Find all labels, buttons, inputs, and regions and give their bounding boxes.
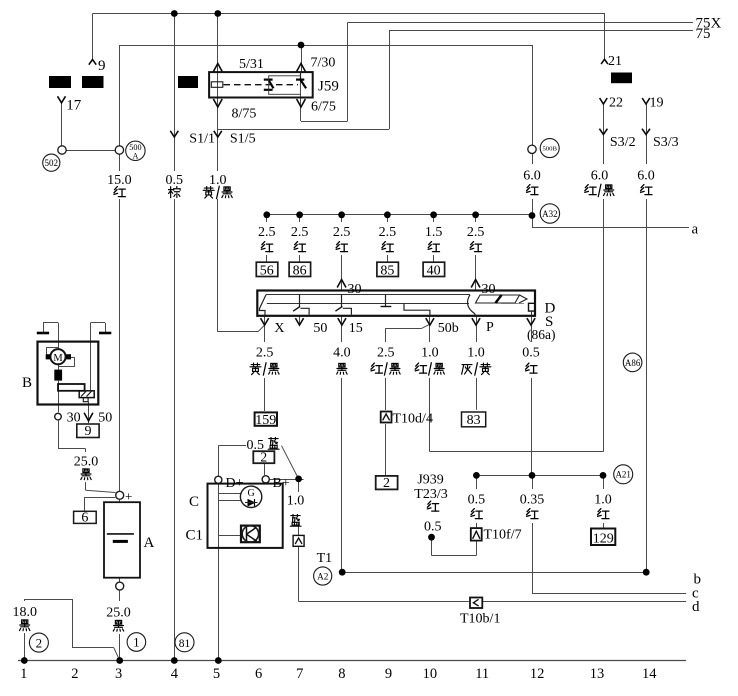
svg-text:A32: A32 — [542, 209, 558, 219]
svg-text:2.5: 2.5 — [333, 225, 351, 240]
svg-text:8: 8 — [338, 666, 345, 682]
svg-text:1.0: 1.0 — [594, 493, 612, 508]
svg-text:A: A — [144, 535, 155, 551]
svg-text:56: 56 — [260, 264, 274, 279]
svg-text:S1/5: S1/5 — [230, 132, 256, 147]
svg-text:D+: D+ — [226, 476, 244, 491]
svg-text:S3/2: S3/2 — [610, 135, 636, 150]
svg-text:30: 30 — [348, 282, 362, 297]
svg-text:21: 21 — [608, 54, 622, 69]
svg-text:d: d — [692, 599, 700, 615]
svg-text:+: + — [125, 489, 132, 504]
svg-text:9: 9 — [98, 58, 106, 74]
svg-text:P: P — [486, 320, 494, 335]
svg-text:1.5: 1.5 — [425, 225, 443, 240]
svg-text:12: 12 — [530, 666, 545, 682]
svg-text:159: 159 — [255, 413, 276, 428]
svg-text:22: 22 — [609, 96, 623, 111]
svg-text:1: 1 — [133, 635, 140, 650]
svg-text:30: 30 — [67, 411, 81, 426]
svg-text:A21: A21 — [615, 470, 631, 480]
svg-text:T10d/4: T10d/4 — [393, 411, 433, 426]
svg-text:2.5: 2.5 — [379, 225, 397, 240]
svg-text:0.5: 0.5 — [522, 346, 540, 361]
svg-text:11: 11 — [475, 666, 489, 682]
svg-text:0.35: 0.35 — [520, 493, 545, 508]
svg-text:B: B — [22, 375, 32, 391]
svg-text:5/31: 5/31 — [239, 57, 264, 72]
svg-text:J59: J59 — [318, 79, 339, 95]
svg-text:T10f/7: T10f/7 — [484, 528, 522, 543]
svg-text:19: 19 — [650, 96, 664, 111]
svg-text:50b: 50b — [438, 321, 459, 336]
svg-text:6.0: 6.0 — [637, 168, 655, 183]
svg-text:7/30: 7/30 — [311, 56, 336, 71]
svg-text:(86a): (86a) — [527, 327, 555, 342]
svg-text:3: 3 — [115, 666, 122, 682]
svg-text:81: 81 — [179, 638, 191, 650]
svg-text:40: 40 — [427, 264, 441, 279]
svg-text:A2: A2 — [317, 571, 329, 581]
svg-text:4.0: 4.0 — [333, 346, 351, 361]
svg-text:18.0: 18.0 — [12, 605, 37, 620]
svg-text:0.5: 0.5 — [468, 493, 486, 508]
svg-text:2.5: 2.5 — [467, 225, 485, 240]
svg-text:8/75: 8/75 — [232, 107, 257, 122]
svg-text:X: X — [274, 321, 284, 336]
svg-text:75: 75 — [696, 26, 711, 42]
svg-text:B+: B+ — [273, 476, 290, 491]
svg-text:5: 5 — [213, 666, 220, 682]
svg-text:2.5: 2.5 — [377, 346, 395, 361]
svg-text:50: 50 — [313, 321, 327, 336]
svg-text:83: 83 — [467, 413, 481, 428]
svg-text:A: A — [132, 151, 138, 160]
svg-text:1.0: 1.0 — [421, 346, 439, 361]
svg-text:2.5: 2.5 — [258, 225, 276, 240]
svg-text:6: 6 — [255, 666, 262, 682]
svg-text:85: 85 — [380, 264, 394, 279]
svg-text:86: 86 — [293, 264, 307, 279]
svg-text:a: a — [692, 222, 699, 238]
svg-text:6.0: 6.0 — [591, 168, 609, 183]
svg-text:50: 50 — [98, 411, 112, 426]
svg-text:S3/3: S3/3 — [653, 135, 679, 150]
svg-text:J939: J939 — [417, 473, 443, 488]
svg-text:15: 15 — [349, 321, 363, 336]
svg-text:M: M — [53, 353, 63, 364]
svg-text:10: 10 — [423, 666, 438, 682]
svg-text:9: 9 — [85, 424, 92, 439]
svg-text:T23/3: T23/3 — [414, 487, 447, 502]
svg-text:2: 2 — [383, 476, 390, 491]
svg-text:6.0: 6.0 — [523, 168, 541, 183]
svg-text:T1: T1 — [317, 551, 333, 566]
svg-text:S1/1: S1/1 — [189, 132, 215, 147]
svg-text:500B: 500B — [542, 146, 557, 153]
svg-text:15.0: 15.0 — [107, 173, 132, 188]
svg-text:2.5: 2.5 — [291, 225, 309, 240]
svg-text:0.5: 0.5 — [424, 520, 442, 535]
svg-text:1: 1 — [20, 666, 27, 682]
svg-text:G: G — [247, 488, 254, 499]
svg-text:129: 129 — [593, 532, 614, 547]
svg-text:14: 14 — [642, 666, 657, 682]
svg-text:25.0: 25.0 — [106, 606, 131, 621]
svg-text:2: 2 — [71, 666, 78, 682]
svg-text:502: 502 — [45, 158, 59, 168]
svg-text:1.0: 1.0 — [467, 346, 485, 361]
svg-text:2.5: 2.5 — [256, 346, 274, 361]
svg-text:1.0: 1.0 — [209, 173, 227, 188]
svg-text:6: 6 — [81, 511, 88, 526]
svg-text:0.5: 0.5 — [166, 173, 184, 188]
svg-text:4: 4 — [171, 666, 179, 682]
svg-text:0.5: 0.5 — [247, 438, 265, 453]
svg-text:6/75: 6/75 — [311, 100, 336, 115]
svg-text:7: 7 — [296, 666, 303, 682]
svg-text:A86: A86 — [625, 358, 641, 368]
svg-text:T10b/1: T10b/1 — [460, 612, 500, 627]
svg-text:C1: C1 — [186, 528, 204, 544]
svg-text:13: 13 — [590, 666, 605, 682]
svg-text:2: 2 — [36, 635, 43, 650]
svg-text:17: 17 — [66, 98, 82, 114]
svg-text:1.0: 1.0 — [287, 494, 305, 509]
svg-text:25.0: 25.0 — [74, 455, 99, 470]
svg-text:30: 30 — [482, 282, 496, 297]
svg-text:C: C — [189, 494, 199, 510]
svg-text:9: 9 — [385, 666, 392, 682]
